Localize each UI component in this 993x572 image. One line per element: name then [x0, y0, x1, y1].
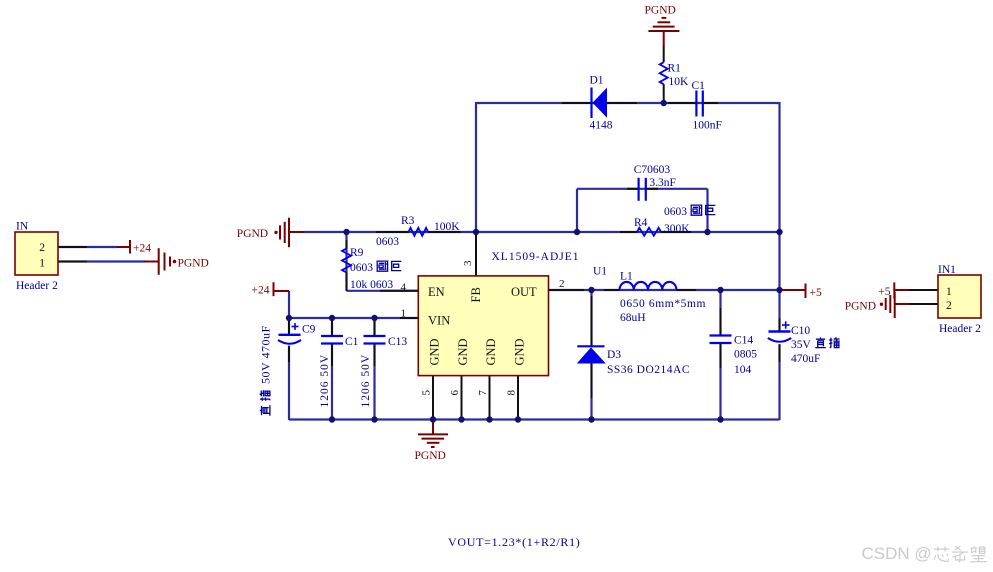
svg-text:C14: C14: [734, 334, 753, 346]
power +5 bar port (IN1 header pin1): [894, 282, 909, 298]
svg-text:6: 6: [449, 390, 461, 396]
wire FB net horizontal y=232: [303, 231, 779, 233]
ground PGND top (earth symbol above R1): [648, 18, 679, 46]
junction dot OUT/D3: [588, 287, 594, 293]
pin D1 leads (black): [562, 102, 591, 104]
capacitor C9 (electrolytic 470uF): [278, 323, 301, 344]
svg-text:300K: 300K: [664, 223, 690, 235]
svg-text:2: 2: [39, 242, 45, 254]
pin D3 leads (black): [591, 296, 593, 345]
pin number 3 (FB, rotated): [462, 260, 474, 266]
svg-text:XL1509-ADJE1: XL1509-ADJE1: [492, 251, 580, 263]
wire right vertical below C10 to ground rail: [778, 344, 780, 420]
ground PGND bottom (earth symbol under pin 5): [418, 420, 448, 448]
svg-text:2: 2: [946, 300, 952, 312]
pin name GND (pin7, rotated): [484, 338, 498, 365]
pin R4 leads (black): [620, 231, 637, 233]
wire C14 branch x=720.5 upper: [719, 290, 721, 335]
svg-text:R9: R9: [350, 247, 364, 259]
svg-text:0603: 0603: [664, 206, 687, 218]
svg-text:EN: EN: [428, 285, 445, 299]
svg-text:+24: +24: [133, 242, 151, 254]
svg-text:0650 6mm*5mm: 0650 6mm*5mm: [620, 298, 706, 310]
svg-text:VIN: VIN: [428, 313, 450, 327]
pin C9 leads (black): [288, 320, 290, 334]
wire left vertical x=476 from top wire to FB net: [475, 102, 477, 233]
power PGND bar port (IN header pin1): [144, 248, 176, 275]
svg-text:470uF: 470uF: [791, 353, 820, 365]
svg-text:PGND: PGND: [237, 228, 268, 240]
junction dot rail/pin5: [430, 416, 436, 422]
resistor R4 (300K, horizontal): [637, 228, 661, 236]
wire C13 branch x=374.5 lower: [373, 344, 375, 420]
wire ground rail y=419.5: [289, 418, 780, 420]
diode D3 (SS36): [577, 346, 606, 363]
pin 4 EN lead (black): [380, 290, 418, 292]
connector IN header body: [15, 232, 58, 275]
svg-text:PGND: PGND: [645, 4, 676, 16]
svg-text:1206 50V: 1206 50V: [360, 354, 372, 408]
pin C10 leads (black): [779, 318, 781, 331]
svg-text:68uH: 68uH: [620, 312, 646, 324]
wire IN header pin1: [58, 260, 145, 262]
pin name GND (pin5, rotated): [428, 338, 442, 365]
svg-text:10K: 10K: [669, 76, 690, 88]
pin number 6 (rotated): [449, 390, 461, 396]
junction dot C1/VIN: [329, 315, 335, 321]
junction dot rail/D3: [588, 416, 594, 422]
junction dot rail/C1: [329, 416, 335, 422]
wire C1 branch x=332 upper: [331, 318, 333, 336]
svg-text:GND: GND: [484, 338, 498, 365]
connector IN1 header body: [938, 275, 981, 318]
resistor R3 (100K, horizontal): [409, 228, 428, 236]
svg-text:C1: C1: [692, 80, 706, 92]
pin C14 leads (black): [720, 308, 722, 335]
svg-text:GND: GND: [428, 338, 442, 365]
wire IN header pin2: [58, 246, 118, 248]
svg-text:1: 1: [946, 286, 952, 298]
svg-text:SS36 DO214AC: SS36 DO214AC: [607, 364, 690, 376]
svg-text:10k 0603: 10k 0603: [350, 279, 393, 291]
svg-text:50V 470uF: 50V 470uF: [259, 325, 273, 384]
svg-text:+5: +5: [878, 286, 890, 298]
pin 5 lead (black): [432, 376, 434, 420]
junction dot R1/D1/C1 node: [661, 100, 667, 106]
svg-text:PGND: PGND: [415, 450, 446, 462]
wire OUT net y=290: [549, 289, 781, 291]
wire C14 branch x=720.5 lower: [719, 344, 721, 421]
power PGND bar port (IN1 header pin2): [880, 292, 910, 318]
junction dot C13/VIN: [371, 315, 377, 321]
pin name GND (pin6, rotated): [456, 338, 470, 365]
junction dot rail/C13: [371, 416, 377, 422]
wire +24 vertical x=289 down to C9: [288, 291, 290, 335]
pin C7 leads (black): [627, 188, 638, 190]
wire D3 branch x=591.5 upper: [590, 290, 592, 346]
wire top FB-loop horizontal (D1/R1/C1 net, y=103): [476, 102, 780, 104]
label 直插 50V 470uF (C9, rotated): [259, 325, 273, 415]
label 0603 國巨 (R4 part): [664, 205, 715, 218]
pin 7 lead (black): [489, 376, 491, 420]
pin number 7 (rotated): [477, 390, 489, 396]
pin number 5 (rotated): [421, 390, 433, 396]
diode D1 (4148): [592, 88, 608, 119]
pin L1 leads (black): [604, 289, 620, 291]
svg-text:C1: C1: [345, 336, 359, 348]
junction dot +24/C9: [286, 315, 292, 321]
svg-text:8: 8: [506, 390, 518, 396]
wire C7 horizontal y=188.8: [577, 188, 708, 190]
label 1206 50V (C13, rotated): [360, 354, 372, 408]
pin name GND (pin8, rotated): [513, 338, 527, 365]
capacitor C7 (3.3nF): [639, 178, 646, 201]
capacitor C1 (100nF, top): [696, 91, 702, 117]
svg-text:GND: GND: [513, 338, 527, 365]
wire R9 to EN pin y=290.8: [347, 290, 419, 292]
svg-text:4: 4: [401, 282, 407, 294]
svg-text:100nF: 100nF: [693, 119, 722, 131]
svg-text:100K: 100K: [434, 221, 460, 233]
junction dot FB/right vertical: [776, 229, 782, 235]
pin C1 leads (black): [331, 320, 333, 335]
wire VIN net y=318: [289, 317, 418, 319]
svg-text:D1: D1: [590, 75, 604, 87]
junction dot C7 left: [574, 229, 580, 235]
svg-text:R3: R3: [401, 215, 415, 227]
junction dot R9 top: [343, 229, 349, 235]
power PGND bar port (mid-left, feeds R3 net): [274, 218, 304, 248]
junction dot OUT/C14: [717, 287, 723, 293]
label 1206 50V (C1, rotated): [319, 354, 331, 408]
svg-text:3: 3: [462, 260, 474, 266]
inductor L1 (68uH): [620, 282, 677, 290]
pin number 8 (rotated): [506, 390, 518, 396]
svg-text:1: 1: [401, 308, 407, 320]
svg-text:C13: C13: [388, 336, 407, 348]
pin IN header pin1 lead (black): [58, 261, 87, 263]
svg-text:PGND: PGND: [178, 257, 209, 269]
svg-text:Header 2: Header 2: [939, 323, 981, 335]
svg-text:4148: 4148: [590, 120, 613, 132]
wire R9 vertical x=346.5: [345, 232, 347, 291]
svg-text:VOUT=1.23*(1+R2/R1): VOUT=1.23*(1+R2/R1): [448, 535, 581, 549]
svg-text:2: 2: [559, 278, 565, 290]
pin R3 leads (black): [376, 231, 409, 233]
wire C1 branch x=332 lower: [331, 344, 333, 420]
svg-text:C70603: C70603: [634, 164, 671, 176]
label 35V 直插 (C10 part): [791, 337, 840, 350]
svg-text:GND: GND: [456, 338, 470, 365]
resistor R9 (10k, vertical): [342, 249, 351, 273]
pin IN1 header pin1 lead (black): [909, 289, 938, 291]
svg-text:OUT: OUT: [511, 285, 537, 299]
junction dot rail/pin8: [515, 416, 521, 422]
power +5 bar port (OUT net): [780, 284, 806, 299]
capacitor C10 (electrolytic 470uF): [768, 321, 791, 341]
pin R9 leads (black): [346, 240, 348, 249]
junction dot rail/C14: [717, 416, 723, 422]
svg-text:7: 7: [477, 390, 489, 396]
power +24 bar port (mid-left above C9): [274, 282, 290, 296]
pin name FB (rotated): [469, 287, 483, 302]
watermark CSDN: [862, 544, 987, 563]
pin R1 top/bottom leads + C1 leads (black): [663, 46, 665, 63]
power +24 bar port (IN header pin2): [117, 240, 130, 254]
svg-text:FB: FB: [469, 287, 483, 302]
pin IN header pin2 lead (black): [58, 246, 87, 248]
pin 3 FB lead (black): [475, 232, 477, 276]
svg-text:C10: C10: [791, 325, 810, 337]
svg-text:L1: L1: [620, 271, 633, 283]
wire C13 branch x=374.5 upper: [373, 318, 375, 336]
pin IN1 header pin2 lead (black): [909, 303, 938, 305]
junction dot OUT/+5/C10: [776, 287, 782, 293]
pin 2 OUT lead (black): [549, 289, 585, 291]
svg-text:PGND: PGND: [845, 300, 876, 312]
wire D3 branch x=591.5 lower: [590, 364, 592, 421]
svg-text:Header 2: Header 2: [16, 280, 58, 292]
svg-text:R4: R4: [634, 217, 648, 229]
svg-text:104: 104: [734, 364, 752, 376]
svg-text:C9: C9: [302, 324, 316, 336]
svg-text:R1: R1: [668, 63, 682, 75]
svg-text:CSDN @: CSDN @: [862, 544, 932, 563]
svg-text:IN1: IN1: [938, 264, 956, 276]
capacitor C1 (1206 50V, VIN): [321, 336, 343, 344]
junction dot rail/pin6: [458, 416, 464, 422]
svg-text:+5: +5: [810, 287, 822, 299]
wire right vertical x=779.5 (C1/R4 to +5 node, down to C10): [778, 102, 780, 331]
svg-text:IN: IN: [16, 220, 29, 232]
junction dot FB node: [473, 229, 479, 235]
op-amp U1 XL1509-ADJE1 IC body: [418, 276, 548, 376]
label 0603 國巨 (R9 part): [350, 261, 401, 274]
svg-text:0603: 0603: [376, 236, 399, 248]
capacitor C13 (1206 50V, VIN): [364, 336, 386, 344]
svg-text:U1: U1: [593, 265, 607, 277]
junction dot rail/pin7: [486, 416, 492, 422]
svg-text:D3: D3: [607, 349, 621, 361]
svg-text:0603: 0603: [350, 262, 373, 274]
svg-text:1206 50V: 1206 50V: [319, 354, 331, 408]
svg-text:5: 5: [421, 390, 433, 396]
pin 8 lead (black): [517, 376, 519, 420]
pin 6 lead (black): [461, 376, 463, 420]
pin 1 VIN lead (black): [400, 317, 418, 319]
capacitor C14 (104, OUT): [710, 336, 732, 344]
junction dot C7 right: [704, 229, 710, 235]
svg-text:+24: +24: [252, 285, 270, 297]
svg-text:3.3nF: 3.3nF: [649, 177, 676, 189]
pin C13 leads (black): [374, 320, 376, 335]
wire C9 bottom to rail: [288, 346, 290, 421]
svg-text:1: 1: [39, 257, 45, 269]
wire C7 branch left vertical x=577: [576, 189, 578, 232]
resistor R1 (10K, vertical): [660, 62, 668, 84]
wire C7 branch right vertical x=707.5: [706, 189, 708, 232]
svg-text:35V: 35V: [791, 339, 812, 351]
svg-text:0805: 0805: [734, 348, 757, 360]
